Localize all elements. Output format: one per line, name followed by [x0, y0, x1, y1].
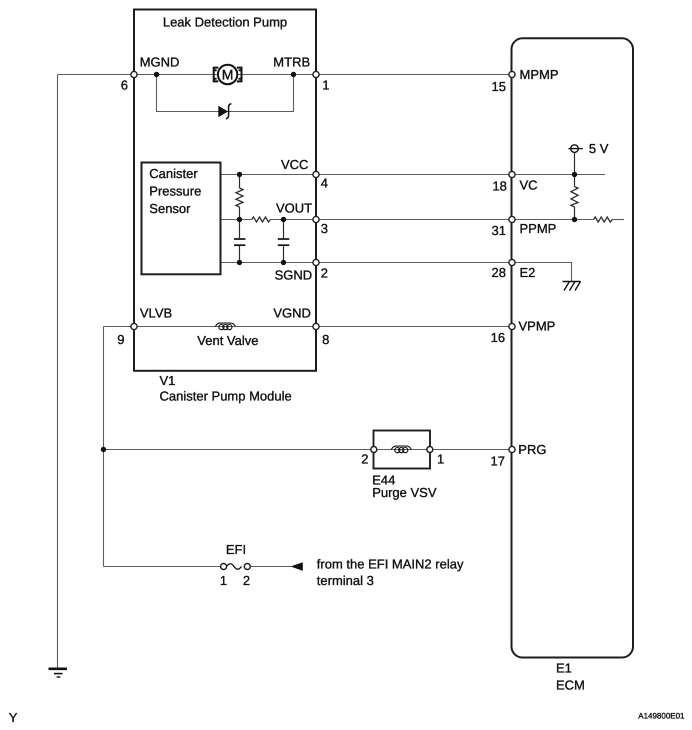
svg-text:Y: Y	[9, 710, 18, 725]
svg-text:PRG: PRG	[518, 442, 546, 457]
svg-text:EFI: EFI	[226, 542, 246, 557]
svg-text:1: 1	[220, 573, 227, 588]
svg-text:VPMP: VPMP	[519, 319, 556, 334]
svg-text:A149800E01: A149800E01	[638, 712, 685, 721]
svg-text:1: 1	[322, 78, 329, 93]
svg-text:E1: E1	[556, 661, 572, 676]
svg-text:Pressure: Pressure	[149, 184, 201, 199]
svg-text:from the EFI MAIN2 relay: from the EFI MAIN2 relay	[317, 557, 464, 572]
svg-text:2: 2	[321, 266, 328, 281]
svg-text:16: 16	[491, 330, 505, 345]
svg-text:1: 1	[437, 452, 444, 467]
svg-text:VCC: VCC	[281, 157, 308, 172]
svg-text:2: 2	[243, 573, 250, 588]
svg-text:Vent Valve: Vent Valve	[197, 333, 258, 348]
svg-text:15: 15	[492, 79, 506, 94]
svg-text:28: 28	[492, 265, 506, 280]
svg-text:M: M	[222, 67, 234, 83]
svg-text:17: 17	[491, 453, 505, 468]
svg-text:5 V: 5 V	[589, 141, 609, 156]
svg-text:SGND: SGND	[275, 268, 313, 283]
svg-text:18: 18	[492, 179, 506, 194]
svg-text:MPMP: MPMP	[520, 67, 559, 82]
svg-text:Canister: Canister	[149, 166, 198, 181]
svg-text:Leak Detection Pump: Leak Detection Pump	[163, 15, 287, 30]
svg-text:9: 9	[117, 332, 124, 347]
svg-text:3: 3	[321, 221, 328, 236]
svg-text:31: 31	[492, 223, 506, 238]
svg-text:2: 2	[361, 452, 368, 467]
svg-text:V1: V1	[160, 373, 176, 388]
svg-text:4: 4	[321, 176, 328, 191]
svg-text:Canister Pump Module: Canister Pump Module	[160, 389, 292, 404]
svg-text:8: 8	[322, 332, 329, 347]
svg-text:VOUT: VOUT	[276, 201, 312, 216]
svg-text:VLVB: VLVB	[140, 306, 172, 321]
svg-text:terminal 3: terminal 3	[317, 573, 374, 588]
svg-text:Sensor: Sensor	[149, 201, 191, 216]
svg-text:MGND: MGND	[140, 55, 180, 70]
svg-text:VGND: VGND	[273, 306, 311, 321]
svg-text:VC: VC	[520, 178, 538, 193]
svg-text:PPMP: PPMP	[520, 221, 557, 236]
svg-text:E2: E2	[520, 265, 536, 280]
svg-text:6: 6	[121, 78, 128, 93]
svg-text:ECM: ECM	[556, 678, 585, 693]
svg-text:MTRB: MTRB	[273, 55, 310, 70]
svg-text:Purge VSV: Purge VSV	[372, 485, 437, 500]
